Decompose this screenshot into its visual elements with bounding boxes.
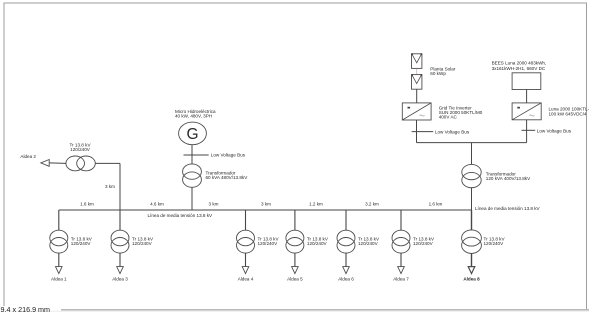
- svg-text:Aldea 2: Aldea 2: [20, 154, 36, 159]
- svg-text:Low Voltage Bus: Low Voltage Bus: [537, 128, 572, 133]
- svg-text:3 km: 3 km: [105, 184, 115, 189]
- svg-text:1.6 km: 1.6 km: [429, 202, 443, 207]
- svg-text:4.6 km: 4.6 km: [150, 202, 164, 207]
- svg-text:1.2 km: 1.2 km: [309, 202, 323, 207]
- svg-text:400V AC: 400V AC: [439, 115, 458, 120]
- svg-text:BEES Luna 2000 483kWh,: BEES Luna 2000 483kWh,: [492, 61, 547, 66]
- svg-text:120/240V: 120/240V: [358, 241, 379, 246]
- svg-text:120/240V: 120/240V: [71, 241, 92, 246]
- svg-text:Aldea 5: Aldea 5: [287, 277, 303, 282]
- svg-text:Aldea 4: Aldea 4: [238, 277, 254, 282]
- svg-text:60 kVA 480V/13.8kV: 60 kVA 480V/13.8kV: [206, 175, 249, 180]
- svg-text:120/240V: 120/240V: [413, 241, 434, 246]
- svg-text:Aldea 7: Aldea 7: [393, 277, 409, 282]
- svg-text:Low Voltage Bus: Low Voltage Bus: [435, 129, 470, 134]
- svg-text:120/240V: 120/240V: [258, 241, 279, 246]
- svg-text:120/240V: 120/240V: [307, 241, 328, 246]
- svg-text:3 km: 3 km: [261, 202, 271, 207]
- svg-text:60 kWp: 60 kWp: [430, 71, 446, 76]
- svg-text:Aldea 8: Aldea 8: [463, 277, 480, 282]
- svg-text:3x161kWH-2H1, 660V DC: 3x161kWH-2H1, 660V DC: [492, 66, 546, 71]
- svg-text:Low Voltage Bus: Low Voltage Bus: [211, 153, 246, 158]
- svg-text:9.4 x 216.9 mm: 9.4 x 216.9 mm: [1, 305, 51, 312]
- svg-text:3.2 km: 3.2 km: [365, 202, 379, 207]
- svg-text:120/240V: 120/240V: [132, 241, 153, 246]
- svg-text:Línea de media tensión 13.8 k: Línea de media tensión 13.8 kV: [475, 206, 541, 211]
- svg-text:40 kW, 480V, 3PH: 40 kW, 480V, 3PH: [175, 114, 212, 119]
- svg-text:G: G: [186, 126, 198, 143]
- svg-text:Aldea 1: Aldea 1: [51, 277, 67, 282]
- svg-text:3 km: 3 km: [209, 202, 219, 207]
- svg-text:1.6 km: 1.6 km: [80, 202, 94, 207]
- svg-text:100 kW 645VDC/4: 100 kW 645VDC/4: [549, 112, 587, 117]
- svg-text:120/240V: 120/240V: [70, 147, 91, 152]
- svg-text:120 kVA 400V/13.8kV: 120 kVA 400V/13.8kV: [486, 176, 531, 181]
- svg-text:120/240V: 120/240V: [484, 241, 505, 246]
- svg-text:Aldea 6: Aldea 6: [338, 277, 354, 282]
- svg-text:Aldea 3: Aldea 3: [112, 277, 128, 282]
- svg-text:Línea de media tensión 13.8 k: Línea de media tensión 13.8 kV: [148, 213, 214, 218]
